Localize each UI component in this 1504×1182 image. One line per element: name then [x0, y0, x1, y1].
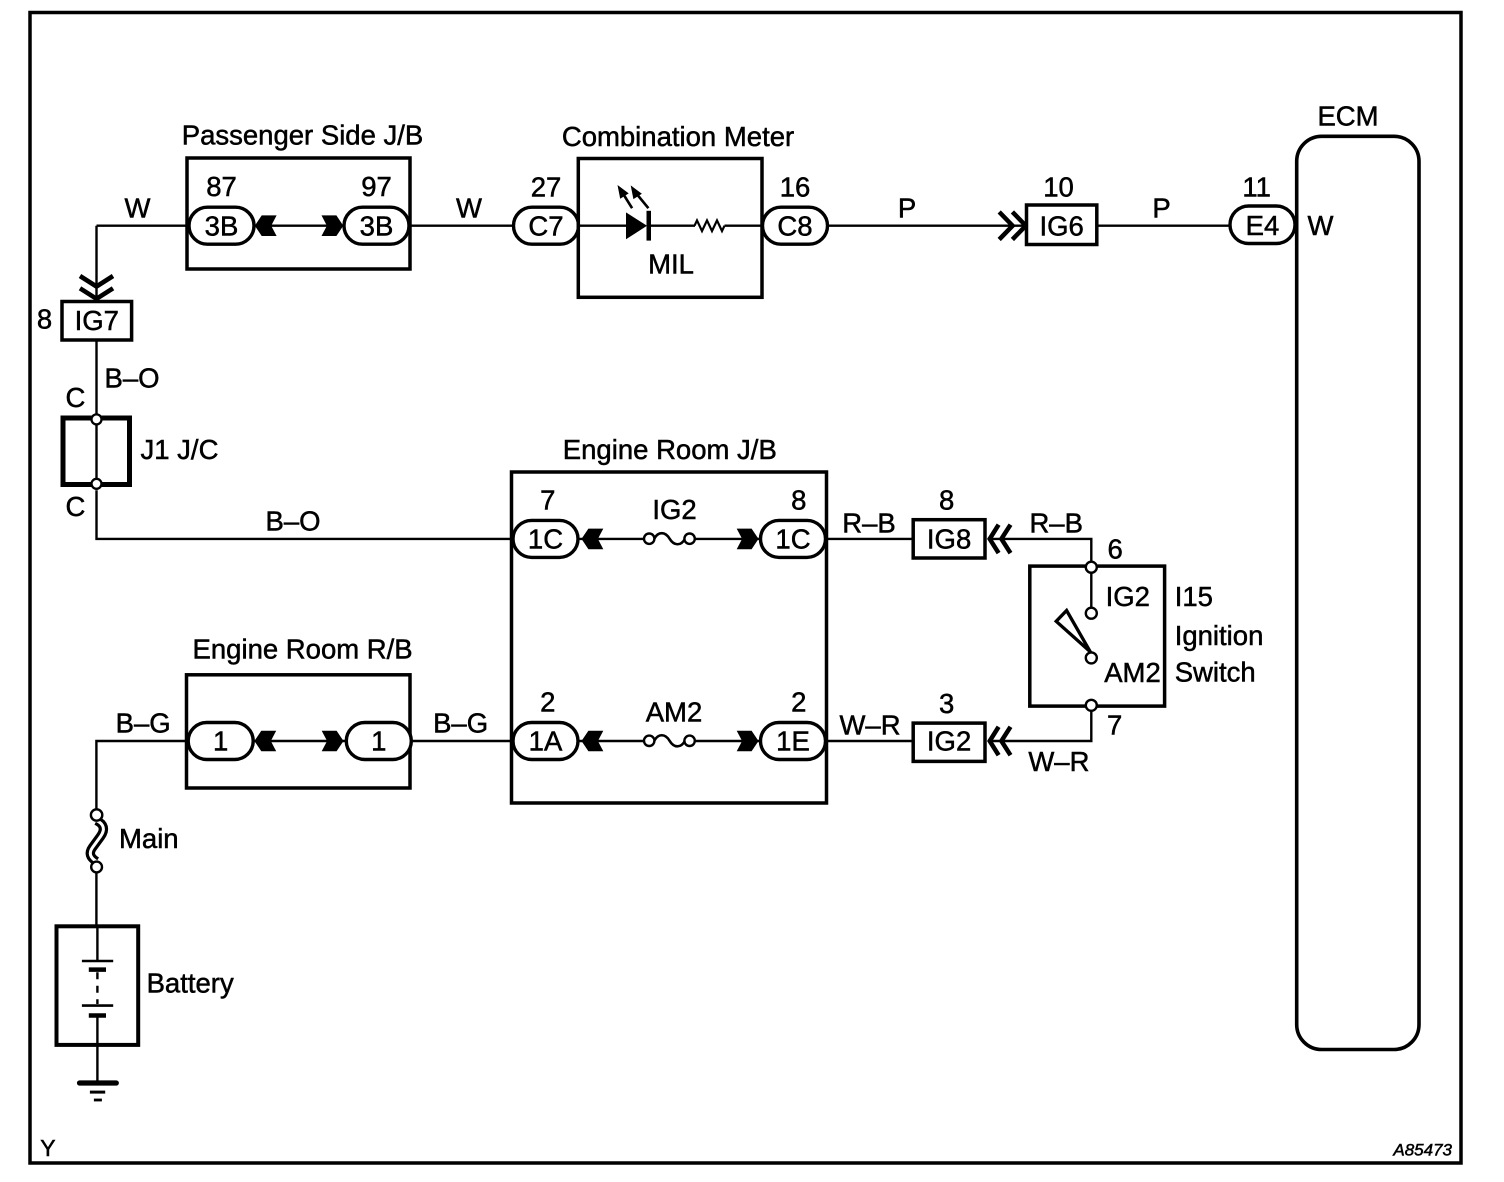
arrow right-pointing R/B	[322, 731, 344, 752]
wire R-B from 1C to IG8	[826, 538, 914, 540]
svg-text:IG2: IG2	[652, 494, 696, 525]
component box Combination Meter	[578, 159, 762, 298]
arrow left-pointing row1	[582, 529, 604, 550]
svg-text:AM2: AM2	[646, 697, 703, 728]
svg-text:C: C	[65, 491, 85, 522]
connector 3B pin 87	[189, 171, 254, 244]
connector C8 pin 16	[763, 172, 828, 245]
svg-text:I15: I15	[1175, 581, 1213, 612]
svg-text:E4: E4	[1246, 210, 1280, 241]
svg-text:1: 1	[371, 726, 386, 757]
svg-text:1A: 1A	[529, 726, 563, 757]
fuse AM2 in J/B	[644, 735, 695, 746]
switch lever	[1056, 611, 1090, 652]
wire between 3B connectors	[254, 224, 344, 226]
svg-text:AM2: AM2	[1104, 657, 1161, 688]
fusible link Main	[90, 809, 103, 872]
wire row2 inside J/B	[578, 740, 646, 742]
svg-text:8: 8	[791, 485, 806, 516]
wire W to Combination Meter	[409, 224, 514, 226]
wire between R/B connectors	[253, 740, 347, 742]
wire B-O from IG7 to J1 J/C	[95, 340, 97, 414]
svg-text:Main: Main	[119, 823, 179, 854]
IG2 contact	[1086, 608, 1097, 619]
wire W vertical down to IG7	[95, 226, 97, 302]
wire row1 inside J/B	[578, 538, 646, 540]
double chevron down-pointing into IG7	[80, 276, 113, 299]
double chevron left-pointing at IG8	[990, 525, 1011, 553]
svg-text:6: 6	[1107, 534, 1122, 565]
svg-text:C8: C8	[777, 210, 812, 241]
svg-text:IG8: IG8	[927, 524, 971, 555]
svg-text:8: 8	[37, 304, 52, 335]
connector 3B pin 97	[344, 171, 409, 244]
svg-text:8: 8	[939, 485, 954, 516]
svg-text:MIL: MIL	[648, 249, 694, 280]
svg-text:7: 7	[540, 485, 555, 516]
svg-text:IG2: IG2	[927, 726, 971, 757]
double chevron left-pointing at IG2	[990, 727, 1011, 755]
wire Main to Battery	[95, 874, 97, 928]
svg-text:R–B: R–B	[842, 508, 896, 539]
svg-text:Engine Room J/B: Engine Room J/B	[563, 434, 777, 465]
fuse block connector IG7 pin 8	[37, 302, 132, 341]
ignition switch I15	[1030, 562, 1165, 711]
svg-text:B–O: B–O	[104, 363, 159, 394]
svg-text:3B: 3B	[205, 210, 239, 241]
wire R-B from chevron to ignition switch pin 6	[988, 539, 1091, 562]
svg-text:Engine Room R/B: Engine Room R/B	[193, 634, 413, 665]
arrow right-pointing row1	[737, 529, 759, 550]
svg-text:1C: 1C	[775, 524, 810, 555]
junction block Passenger Side J/B	[187, 158, 410, 269]
svg-text:C7: C7	[528, 210, 563, 241]
wire B-G from junction to R/B	[96, 741, 188, 809]
double chevron right-pointing	[999, 212, 1026, 240]
arrow left-pointing	[255, 215, 277, 236]
wire W-R from switch pin 7	[988, 711, 1091, 741]
relay block Engine Room R/B	[187, 675, 411, 788]
wire P from C8 to IG6	[828, 224, 1027, 226]
wire LED to resistor	[651, 224, 695, 226]
svg-text:87: 87	[206, 171, 237, 202]
fuse block connector IG8 pin 8	[913, 485, 985, 559]
svg-text:11: 11	[1242, 172, 1271, 203]
svg-text:2: 2	[540, 687, 555, 718]
svg-text:1C: 1C	[528, 524, 563, 555]
pin 7 contact	[1086, 700, 1097, 711]
svg-text:1: 1	[213, 726, 228, 757]
svg-text:10: 10	[1043, 172, 1074, 203]
svg-text:2: 2	[791, 687, 806, 718]
svg-text:B–G: B–G	[433, 708, 488, 739]
ECM	[1297, 136, 1419, 1049]
wire B-G from R/B to 1A	[409, 740, 514, 742]
svg-text:W–R: W–R	[1028, 746, 1089, 777]
battery	[57, 926, 139, 1081]
svg-text:Ignition: Ignition	[1175, 620, 1264, 651]
connector 1C pin 7	[513, 485, 578, 558]
svg-text:W: W	[456, 193, 482, 224]
wire W-R from 1E to IG2	[826, 740, 914, 742]
svg-text:Passenger Side J/B: Passenger Side J/B	[182, 120, 424, 151]
ground	[80, 1083, 117, 1100]
svg-text:1E: 1E	[776, 726, 810, 757]
connector 1 right	[346, 723, 411, 760]
svg-text:B–O: B–O	[265, 506, 320, 537]
svg-text:IG6: IG6	[1040, 210, 1084, 241]
pin 6 contact	[1086, 562, 1097, 573]
svg-text:Switch: Switch	[1175, 657, 1256, 688]
svg-text:W–R: W–R	[839, 710, 900, 741]
connector 1C pin 8	[761, 485, 826, 558]
connector 1 left	[188, 723, 253, 760]
svg-text:Combination Meter: Combination Meter	[562, 121, 794, 152]
wire resistor to C8	[725, 224, 763, 226]
svg-text:97: 97	[361, 171, 392, 202]
wire inside meter to LED	[578, 224, 627, 226]
arrow right-pointing	[322, 215, 344, 236]
svg-text:W: W	[125, 193, 151, 224]
svg-text:P: P	[898, 193, 916, 224]
connector C7 pin 27	[514, 172, 579, 245]
svg-text:3B: 3B	[360, 210, 394, 241]
svg-text:B–G: B–G	[116, 708, 171, 739]
resistor in meter	[695, 220, 725, 231]
arrow left-pointing row2	[582, 731, 604, 752]
svg-text:IG2: IG2	[1106, 581, 1150, 612]
wire B-O from J1 to Engine Room J/B	[97, 490, 514, 539]
svg-text:16: 16	[780, 172, 811, 203]
svg-text:C: C	[65, 382, 85, 413]
svg-text:7: 7	[1107, 710, 1122, 741]
svg-text:27: 27	[531, 172, 562, 203]
svg-text:ECM: ECM	[1317, 101, 1378, 132]
junction block Engine Room J/B	[512, 472, 827, 803]
fuse block connector IG6 pin 10	[1027, 172, 1097, 245]
wire W horizontal to Passenger Side J/B	[97, 224, 191, 226]
junction connector J1 J/C	[63, 414, 130, 488]
svg-text:P: P	[1152, 193, 1170, 224]
svg-text:J1 J/C: J1 J/C	[141, 434, 219, 465]
svg-text:Battery: Battery	[147, 968, 234, 999]
connector E4 pin 11	[1230, 172, 1295, 244]
connector 1A pin 2	[513, 687, 578, 760]
svg-text:IG7: IG7	[75, 305, 119, 336]
fuse IG2 in J/B	[644, 533, 695, 544]
arrow left-pointing R/B	[254, 731, 276, 752]
fuse block connector IG2 pin 3	[913, 688, 985, 761]
svg-text:R–B: R–B	[1029, 508, 1083, 539]
svg-text:3: 3	[939, 688, 954, 719]
svg-text:W: W	[1308, 210, 1334, 241]
arrow right-pointing row2	[737, 731, 759, 752]
AM2 contact	[1086, 652, 1097, 663]
wire P from IG6 to ECM E4	[1097, 224, 1231, 226]
svg-text:A85473: A85473	[1392, 1141, 1452, 1160]
LED MIL (diode triangle, cathode bar, emission arrows)	[618, 185, 652, 241]
svg-text:Y: Y	[40, 1135, 55, 1161]
connector 1E pin 2	[761, 687, 826, 760]
